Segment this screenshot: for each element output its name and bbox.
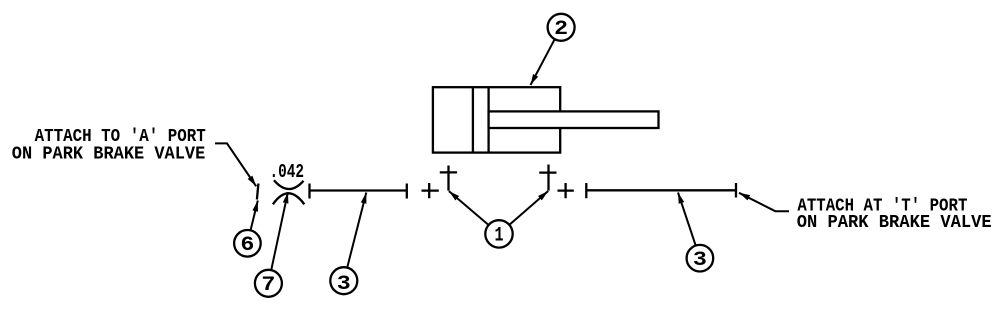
svg-text:ON PARK BRAKE VALVE: ON PARK BRAKE VALVE [12, 144, 206, 164]
svg-text:3: 3 [337, 273, 351, 296]
svg-text:7: 7 [261, 274, 275, 297]
svg-text:ON PARK BRAKE VALVE: ON PARK BRAKE VALVE [797, 213, 992, 233]
svg-text:6: 6 [240, 234, 254, 257]
svg-text:.042: .042 [270, 161, 305, 183]
svg-text:3: 3 [693, 249, 707, 272]
svg-text:1: 1 [495, 225, 504, 248]
svg-text:2: 2 [554, 18, 568, 41]
